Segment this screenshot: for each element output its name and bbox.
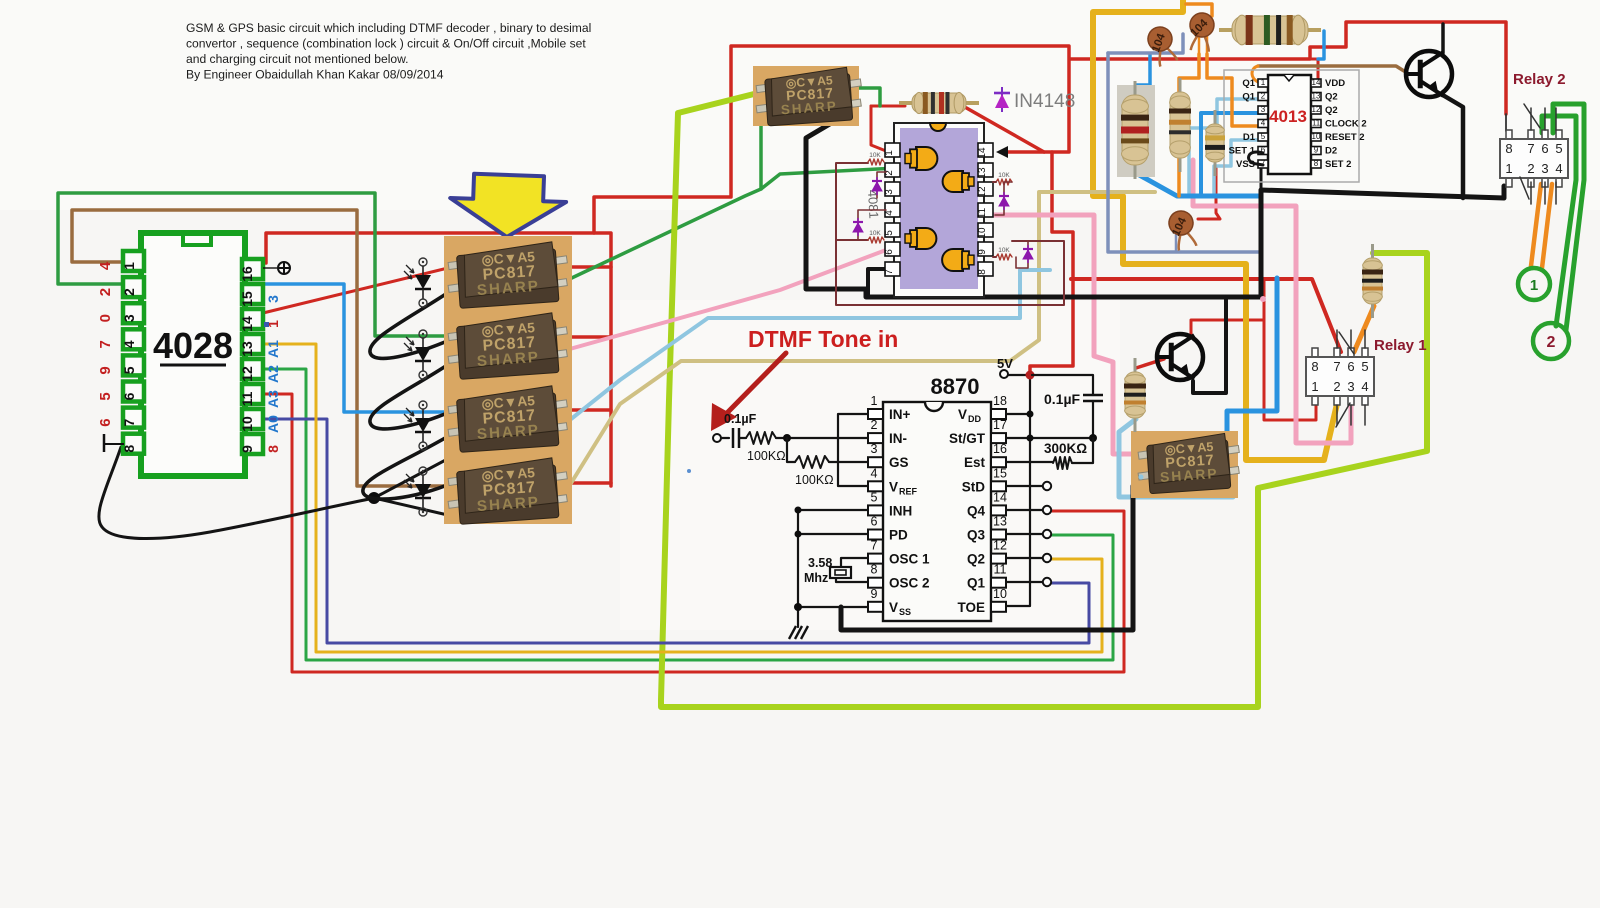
svg-text:OSC 2: OSC 2 bbox=[889, 576, 930, 591]
wire bbox=[996, 146, 1008, 158]
svg-text:A1: A1 bbox=[265, 340, 281, 358]
svg-text:D1: D1 bbox=[1243, 132, 1256, 143]
wire bbox=[1227, 278, 1277, 451]
svg-text:INH: INH bbox=[889, 503, 912, 518]
wire bbox=[829, 461, 868, 463]
wire bbox=[868, 269, 886, 296]
wire bbox=[1336, 403, 1350, 427]
svg-text:Q1: Q1 bbox=[1242, 92, 1255, 103]
gate U8A bbox=[905, 147, 937, 170]
wire bbox=[551, 270, 1050, 435]
svg-text:10: 10 bbox=[1312, 132, 1321, 141]
gate U8B bbox=[943, 171, 974, 192]
wire bbox=[838, 414, 868, 486]
wire bbox=[1108, 53, 1261, 252]
resistor R6 (photo) bbox=[1117, 85, 1155, 177]
wire bbox=[836, 558, 868, 582]
wire bbox=[1310, 59, 1318, 80]
svg-text:Relay 2: Relay 2 bbox=[1513, 71, 1566, 88]
wire bbox=[1186, 4, 1212, 16]
svg-text:DD: DD bbox=[968, 414, 981, 424]
svg-text:DTMF Tone in: DTMF Tone in bbox=[748, 326, 898, 352]
wire bbox=[1214, 140, 1263, 194]
svg-text:3: 3 bbox=[884, 189, 895, 195]
svg-text:5: 5 bbox=[1555, 141, 1562, 156]
svg-text:1: 1 bbox=[1261, 78, 1266, 87]
wire bbox=[1524, 104, 1540, 128]
svg-text:6: 6 bbox=[884, 249, 895, 255]
wire bbox=[1193, 298, 1226, 393]
wire bbox=[559, 408, 611, 412]
wire bbox=[1337, 330, 1365, 348]
stray mark bbox=[1139, 475, 1144, 480]
svg-text:13: 13 bbox=[239, 341, 255, 357]
wire bbox=[1030, 152, 1073, 376]
wire bbox=[759, 124, 763, 189]
svg-text:100KΩ: 100KΩ bbox=[795, 473, 834, 487]
wire bbox=[1136, 359, 1164, 368]
wire bbox=[1441, 94, 1463, 198]
stray mark bbox=[1260, 296, 1266, 302]
wire bbox=[560, 192, 1155, 501]
resistor R9 (photo) bbox=[1362, 244, 1383, 318]
wire bbox=[993, 215, 1148, 454]
svg-text:2: 2 bbox=[1261, 92, 1266, 101]
svg-text:14: 14 bbox=[239, 316, 255, 332]
svg-text:GS: GS bbox=[889, 455, 909, 470]
optocoupler U3 PC817 bbox=[448, 313, 567, 380]
resistor 10K at pin12 bbox=[996, 179, 1012, 185]
optocoupler U4 PC817 bbox=[448, 386, 567, 453]
svg-text:100KΩ: 100KΩ bbox=[747, 449, 786, 463]
stray mark bbox=[264, 322, 269, 327]
node DTMF input bbox=[713, 434, 721, 442]
wire bbox=[263, 284, 452, 412]
svg-text:3: 3 bbox=[265, 295, 281, 303]
svg-text:11: 11 bbox=[239, 391, 255, 406]
IC U1 4028 binary-to-decimal decoder bbox=[97, 233, 281, 476]
optocoupler U7 PC817 (right) bbox=[1131, 431, 1238, 498]
capacitor C4 104 bbox=[1187, 12, 1215, 52]
wire bbox=[1531, 184, 1541, 266]
svg-text:6: 6 bbox=[1347, 359, 1354, 374]
svg-text:13: 13 bbox=[977, 167, 988, 179]
capacitor C5 104 bbox=[1165, 208, 1199, 251]
svg-text:TOE: TOE bbox=[957, 600, 985, 615]
wire bbox=[1542, 116, 1576, 326]
wire bbox=[806, 112, 1504, 297]
wire bbox=[72, 210, 452, 486]
wire bbox=[1093, 0, 1337, 460]
wire bbox=[99, 447, 374, 539]
svg-text:2: 2 bbox=[871, 418, 878, 432]
gate U8C bbox=[905, 228, 936, 249]
wire bbox=[1189, 99, 1258, 194]
svg-text:PD: PD bbox=[889, 528, 908, 543]
svg-text:10K: 10K bbox=[869, 152, 881, 159]
wire bbox=[1260, 166, 1263, 190]
wire bbox=[1207, 54, 1263, 126]
svg-text:9: 9 bbox=[239, 445, 255, 453]
LED D4 bbox=[404, 467, 431, 516]
svg-text:3: 3 bbox=[121, 314, 137, 322]
junction bbox=[368, 492, 380, 504]
wire bbox=[374, 455, 455, 516]
wire bbox=[559, 481, 611, 485]
gate U8D bbox=[942, 249, 974, 271]
svg-text:Q2: Q2 bbox=[1325, 105, 1338, 116]
wire bbox=[1175, 234, 1178, 252]
svg-text:A0: A0 bbox=[265, 415, 281, 433]
node Q2 bbox=[1043, 554, 1051, 562]
svg-text:VDD: VDD bbox=[1325, 78, 1345, 89]
junction bbox=[1089, 434, 1097, 442]
svg-text:StD: StD bbox=[962, 479, 986, 494]
svg-text:11: 11 bbox=[977, 207, 988, 218]
svg-text:10: 10 bbox=[977, 227, 988, 239]
svg-text:10K: 10K bbox=[998, 172, 1010, 179]
svg-text:6: 6 bbox=[121, 392, 137, 400]
svg-text:9: 9 bbox=[97, 366, 114, 374]
wire bbox=[836, 239, 868, 241]
svg-text:A3: A3 bbox=[265, 390, 281, 408]
svg-text:7: 7 bbox=[1527, 141, 1534, 156]
wire bbox=[594, 233, 611, 486]
diode at pin5 bbox=[858, 210, 886, 240]
wire bbox=[1006, 375, 1093, 606]
svg-text:16: 16 bbox=[239, 266, 255, 282]
svg-text:5V: 5V bbox=[997, 356, 1013, 371]
ground bbox=[789, 626, 808, 639]
svg-text:8: 8 bbox=[977, 269, 988, 275]
resistor 10K at pin2 bbox=[868, 159, 884, 165]
svg-text:8: 8 bbox=[265, 445, 281, 453]
svg-text:7: 7 bbox=[884, 269, 895, 275]
svg-text:SET 2: SET 2 bbox=[1325, 159, 1351, 170]
svg-text:5: 5 bbox=[884, 230, 895, 236]
wire bbox=[1252, 66, 1258, 82]
resistor R7 (photo) bbox=[1169, 78, 1191, 172]
svg-text:St/GT: St/GT bbox=[949, 431, 986, 446]
svg-text:REF: REF bbox=[899, 486, 918, 496]
svg-text:10: 10 bbox=[993, 587, 1007, 601]
svg-text:13: 13 bbox=[993, 515, 1007, 529]
resistor R5 (photo) bbox=[1219, 15, 1321, 45]
svg-text:1: 1 bbox=[884, 150, 895, 156]
svg-text:SET 1: SET 1 bbox=[1229, 146, 1256, 157]
svg-text:Relay 1: Relay 1 bbox=[1374, 337, 1427, 354]
LED D1 bbox=[404, 258, 431, 307]
capacitor C1 0.1uF bbox=[732, 428, 735, 448]
node terminal 1 bbox=[1518, 268, 1550, 300]
capacitor C2 0.1uF bbox=[1083, 394, 1103, 397]
svg-text:2: 2 bbox=[121, 288, 137, 296]
svg-text:12: 12 bbox=[239, 366, 255, 382]
resistor R2 100K bbox=[746, 432, 776, 444]
svg-text:15: 15 bbox=[993, 466, 1007, 480]
wire bbox=[1108, 34, 1183, 53]
svg-text:18: 18 bbox=[993, 394, 1007, 408]
junction bbox=[783, 434, 791, 442]
wire bbox=[726, 353, 786, 414]
wire bbox=[776, 437, 868, 439]
wire bbox=[1199, 33, 1207, 54]
svg-text:10K: 10K bbox=[998, 247, 1010, 254]
wire bbox=[739, 437, 746, 439]
wire bbox=[787, 438, 795, 462]
wire bbox=[1337, 405, 1365, 425]
svg-text:1: 1 bbox=[1530, 277, 1538, 294]
wire bbox=[58, 193, 452, 336]
svg-text:300KΩ: 300KΩ bbox=[1044, 441, 1087, 456]
wire bbox=[363, 434, 452, 499]
svg-text:0.1µF: 0.1µF bbox=[724, 412, 757, 426]
resistor R8 (photo) bbox=[1205, 110, 1225, 176]
wire bbox=[1520, 177, 1529, 199]
diode at pin12 net bbox=[995, 182, 1012, 215]
svg-text:CLOCK 2: CLOCK 2 bbox=[1325, 119, 1367, 130]
svg-text:11: 11 bbox=[994, 563, 1007, 577]
wire bbox=[266, 46, 1069, 263]
wire bbox=[1354, 306, 1374, 352]
svg-text:V: V bbox=[889, 479, 898, 494]
wire bbox=[1198, 166, 1220, 219]
wire bbox=[1542, 184, 1552, 268]
svg-text:11: 11 bbox=[1312, 119, 1321, 128]
svg-text:7: 7 bbox=[121, 418, 137, 426]
svg-text:IN4148: IN4148 bbox=[1014, 91, 1075, 112]
junction bbox=[795, 531, 802, 538]
junction bbox=[795, 507, 802, 514]
node Q1 bbox=[1043, 578, 1051, 586]
wire bbox=[1134, 172, 1259, 196]
svg-text:4081: 4081 bbox=[865, 189, 881, 219]
resistor R1 (photo) bbox=[899, 92, 979, 114]
svg-text:V: V bbox=[889, 600, 898, 615]
svg-text:3: 3 bbox=[1541, 161, 1548, 176]
power symbol plus at pin 16 bbox=[263, 267, 277, 269]
svg-text:4: 4 bbox=[1555, 161, 1562, 176]
svg-text:6: 6 bbox=[1541, 141, 1548, 156]
transistor Q2 bbox=[1157, 334, 1203, 380]
svg-text:5: 5 bbox=[121, 366, 137, 374]
wire bbox=[1201, 113, 1263, 194]
wire bbox=[263, 369, 1113, 660]
node 5V bbox=[1000, 370, 1008, 378]
svg-text:6: 6 bbox=[97, 418, 114, 426]
wire bbox=[1258, 66, 1404, 71]
svg-text:7: 7 bbox=[97, 340, 114, 348]
wire bbox=[263, 267, 452, 313]
svg-text:4: 4 bbox=[1361, 379, 1368, 394]
svg-text:5: 5 bbox=[1261, 132, 1266, 141]
node StD bbox=[1043, 482, 1051, 490]
wire bbox=[1531, 108, 1556, 130]
wire bbox=[1249, 152, 1263, 165]
svg-text:RESET 2: RESET 2 bbox=[1325, 132, 1365, 143]
resistor R4 300K bbox=[1053, 457, 1072, 469]
wire bbox=[661, 92, 1427, 707]
svg-text:6: 6 bbox=[871, 515, 878, 529]
svg-text:14: 14 bbox=[993, 490, 1007, 504]
wire bbox=[559, 265, 611, 269]
svg-text:12: 12 bbox=[977, 186, 988, 198]
optocoupler U6 PC817 (top) bbox=[753, 66, 859, 126]
svg-text:2: 2 bbox=[97, 288, 114, 296]
ground at 4028 pin 8 bbox=[104, 443, 124, 445]
resistor 10K at pin9 bbox=[996, 254, 1012, 260]
svg-text:14: 14 bbox=[977, 147, 988, 159]
svg-text:16: 16 bbox=[993, 442, 1007, 456]
optocoupler U2 PC817 bbox=[448, 242, 567, 309]
svg-text:D2: D2 bbox=[1325, 146, 1337, 157]
svg-text:3: 3 bbox=[1261, 105, 1266, 114]
IC U10 4013 dual D flip-flop bbox=[1224, 70, 1367, 182]
svg-text:1: 1 bbox=[121, 262, 137, 270]
svg-text:10: 10 bbox=[239, 416, 255, 432]
svg-text:IN+: IN+ bbox=[889, 407, 911, 422]
svg-text:Q3: Q3 bbox=[967, 528, 986, 543]
svg-text:3: 3 bbox=[871, 442, 878, 456]
arrow symbol (insert optocouplers) bbox=[449, 173, 567, 239]
stray mark bbox=[687, 469, 691, 473]
junction bbox=[1027, 411, 1034, 418]
svg-text:4: 4 bbox=[121, 340, 137, 348]
wire bbox=[370, 290, 452, 358]
svg-text:4: 4 bbox=[871, 466, 878, 480]
svg-text:8: 8 bbox=[871, 563, 878, 577]
svg-text:1: 1 bbox=[1311, 379, 1318, 394]
wire bbox=[370, 362, 452, 429]
svg-text:Q4: Q4 bbox=[967, 503, 986, 518]
svg-text:Mhz: Mhz bbox=[804, 571, 828, 585]
node Q4 bbox=[1043, 506, 1051, 514]
junction bbox=[1026, 371, 1035, 380]
svg-text:4: 4 bbox=[97, 261, 114, 270]
wire bbox=[1505, 114, 1507, 131]
svg-text:4028: 4028 bbox=[153, 325, 233, 366]
wire bbox=[711, 403, 737, 431]
svg-text:2: 2 bbox=[1527, 161, 1534, 176]
svg-text:7: 7 bbox=[1333, 359, 1340, 374]
transistor Q1 bbox=[1406, 51, 1452, 97]
wire bbox=[871, 106, 886, 151]
wire bbox=[1553, 104, 1584, 330]
optocoupler U5 PC817 bbox=[448, 458, 567, 525]
wire bbox=[1006, 486, 1043, 582]
svg-text:and charging circuit not menti: and charging circuit not mentioned below… bbox=[186, 52, 409, 66]
svg-text:Q1: Q1 bbox=[1242, 78, 1255, 89]
svg-text:10K: 10K bbox=[869, 230, 881, 237]
svg-text:8870: 8870 bbox=[931, 374, 980, 399]
svg-text:17: 17 bbox=[993, 418, 1007, 432]
svg-text:1: 1 bbox=[871, 394, 878, 408]
svg-text:5: 5 bbox=[1361, 359, 1368, 374]
svg-text:9: 9 bbox=[1314, 146, 1319, 155]
wire bbox=[1119, 419, 1233, 497]
resistor 10K at pin6 bbox=[868, 237, 884, 243]
wire bbox=[1318, 31, 1324, 59]
svg-text:13: 13 bbox=[1312, 92, 1321, 101]
wire bbox=[798, 510, 868, 627]
svg-text:12: 12 bbox=[993, 539, 1007, 553]
resistor R3 100K bbox=[795, 456, 829, 468]
wire bbox=[1193, 160, 1351, 443]
svg-text:4013: 4013 bbox=[1269, 107, 1307, 126]
svg-text:8: 8 bbox=[1311, 359, 1318, 374]
svg-text:GSM & GPS basic circuit which: GSM & GPS basic circuit which including … bbox=[186, 21, 591, 35]
svg-text:8: 8 bbox=[121, 445, 137, 453]
svg-text:OSC 1: OSC 1 bbox=[889, 552, 930, 567]
junction bbox=[1027, 435, 1034, 442]
svg-text:5: 5 bbox=[97, 392, 114, 400]
svg-text:15: 15 bbox=[239, 291, 255, 307]
node terminal 2 bbox=[1533, 323, 1569, 359]
svg-text:2: 2 bbox=[1333, 379, 1340, 394]
svg-text:2: 2 bbox=[1547, 334, 1556, 351]
svg-text:9: 9 bbox=[977, 249, 988, 255]
wire bbox=[1136, 55, 1150, 85]
IC U8 4081 quad AND gate bbox=[884, 123, 993, 297]
junction bbox=[794, 603, 802, 611]
svg-text:3.58: 3.58 bbox=[808, 556, 832, 570]
svg-text:V: V bbox=[958, 407, 967, 422]
svg-text:9: 9 bbox=[871, 587, 878, 601]
node Q3 bbox=[1043, 530, 1051, 538]
svg-text:VSS: VSS bbox=[1236, 159, 1255, 170]
wire bbox=[263, 419, 1089, 643]
wire bbox=[1179, 54, 1199, 196]
wire bbox=[849, 88, 880, 106]
diode at pin3 bbox=[877, 172, 886, 198]
wire bbox=[836, 163, 1064, 305]
svg-text:12: 12 bbox=[1312, 105, 1321, 114]
svg-text:8: 8 bbox=[1314, 159, 1319, 168]
wire bbox=[871, 105, 905, 108]
svg-text:0: 0 bbox=[97, 314, 114, 322]
svg-text:convertor , sequence (combinat: convertor , sequence (combination lock )… bbox=[186, 37, 586, 51]
svg-text:Q2: Q2 bbox=[1325, 92, 1338, 103]
wire bbox=[263, 344, 1102, 652]
svg-text:4: 4 bbox=[1261, 119, 1266, 128]
capacitor C3 104 bbox=[1144, 24, 1180, 68]
wire bbox=[559, 168, 898, 284]
svg-text:3: 3 bbox=[1347, 379, 1354, 394]
svg-text:Est: Est bbox=[964, 455, 986, 470]
crystal X1 3.58MHz bbox=[830, 567, 851, 578]
wire bbox=[559, 250, 886, 352]
svg-text:7: 7 bbox=[871, 539, 878, 553]
resistor R10 (photo) bbox=[1124, 358, 1146, 432]
svg-text:1: 1 bbox=[1505, 161, 1512, 176]
relay RL1 bbox=[1306, 348, 1374, 405]
wire bbox=[263, 394, 1124, 672]
wire bbox=[1339, 332, 1354, 354]
wire bbox=[1071, 279, 1341, 352]
wire bbox=[1071, 22, 1506, 114]
svg-text:SS: SS bbox=[899, 607, 911, 617]
svg-text:8: 8 bbox=[1505, 141, 1512, 156]
relay RL2 bbox=[1500, 130, 1568, 187]
svg-text:Q2: Q2 bbox=[967, 552, 985, 567]
LED D2 bbox=[404, 330, 431, 379]
wire bbox=[1264, 279, 1316, 420]
wire bbox=[559, 335, 611, 339]
IC U9 8870 DTMF decoder bbox=[868, 394, 1007, 621]
wire bbox=[721, 437, 729, 439]
svg-text:A2: A2 bbox=[265, 365, 281, 383]
diode D5 IN4148 bbox=[994, 87, 1010, 112]
